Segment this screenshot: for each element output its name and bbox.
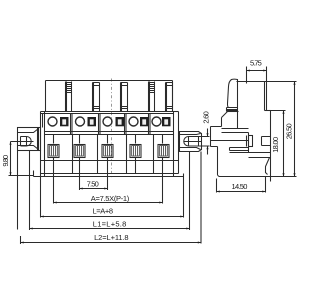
dim 2.60 extension lines bbox=[199, 137, 210, 147]
circle contact 2 bbox=[76, 117, 85, 126]
dim L=A+8 bbox=[41, 174, 184, 218]
wire slot 5 bbox=[158, 145, 169, 158]
cell separator 1 bbox=[71, 114, 73, 135]
pin P3 bbox=[121, 83, 128, 112]
pin P2 bbox=[93, 83, 100, 112]
dim 5.75 bbox=[247, 67, 267, 84]
wire slot 3 bbox=[102, 145, 113, 158]
svg-text:L2=L+11.8: L2=L+11.8 bbox=[94, 233, 129, 242]
wire slot 4 bbox=[130, 145, 141, 158]
side view under-lever edge bbox=[237, 112, 239, 129]
slot centerline stubs below slots bbox=[54, 157, 163, 177]
side view lever bbox=[227, 79, 239, 111]
cell separator 2 bbox=[99, 114, 101, 135]
cell separator 4 bbox=[149, 114, 151, 135]
wire slot 2 bbox=[74, 145, 85, 158]
pin P5 bbox=[166, 83, 173, 112]
circle contact 5 bbox=[152, 117, 161, 126]
square contact 4 bbox=[140, 117, 149, 126]
circle contact 4 bbox=[129, 117, 138, 126]
front view top band outline bbox=[46, 81, 173, 112]
circle contact 1 bbox=[48, 117, 57, 126]
dim 26.50 bbox=[267, 82, 297, 177]
lower band dividers bbox=[73, 135, 154, 174]
left flange edge extension bbox=[17, 151, 19, 230]
cell separator 3 bbox=[125, 114, 127, 135]
body bottom line bbox=[45, 160, 174, 162]
side view right edge bbox=[270, 111, 272, 182]
svg-text:14.50: 14.50 bbox=[232, 182, 248, 191]
side view step bbox=[265, 110, 271, 112]
side view top line bbox=[237, 81, 267, 83]
left flange ear outline bbox=[18, 128, 41, 151]
dim 2.60 arrows bbox=[206, 129, 208, 155]
dim 9.80 bbox=[9, 142, 34, 176]
dim A=7.5X(P-1) bbox=[54, 177, 163, 204]
side view right upper double edge bbox=[265, 82, 267, 111]
dimension texts bbox=[1, 59, 294, 242]
pin P4 hatched lever bbox=[149, 82, 155, 112]
svg-text:L=A+8: L=A+8 bbox=[93, 207, 114, 216]
circle contact 3 bbox=[103, 117, 112, 126]
side view left lower step bbox=[211, 112, 228, 147]
side view cavity band bbox=[211, 129, 271, 158]
square contact 5 bbox=[162, 117, 171, 126]
dim L1=L+5.8 bbox=[30, 151, 190, 230]
bottom plate bbox=[34, 171, 184, 177]
square contact 1 bbox=[60, 117, 69, 126]
svg-text:26.50: 26.50 bbox=[284, 123, 293, 139]
body top double line with left ledge bbox=[41, 112, 174, 114]
svg-text:5.75: 5.75 bbox=[250, 59, 262, 68]
side view bottom bbox=[217, 147, 270, 177]
svg-text:9.80: 9.80 bbox=[1, 155, 10, 167]
skirt bbox=[41, 161, 179, 174]
side view foot notch bbox=[266, 158, 270, 175]
right side step line bbox=[178, 112, 180, 174]
vertical dash-dot centerline bbox=[111, 79, 113, 178]
dim 7.50 bbox=[80, 177, 108, 191]
right flange ear outline bbox=[179, 132, 202, 152]
dim 14.50 bbox=[217, 177, 266, 193]
svg-text:7.50: 7.50 bbox=[87, 180, 99, 189]
svg-text:2.60: 2.60 bbox=[202, 111, 211, 123]
right flange slot bbox=[184, 137, 202, 147]
square contact 3 bbox=[116, 117, 125, 126]
svg-text:L1=L+5.8: L1=L+5.8 bbox=[93, 219, 127, 228]
mid double line bbox=[45, 132, 174, 135]
right ledge line bbox=[174, 111, 179, 113]
svg-text:A=7.5X(P-1): A=7.5X(P-1) bbox=[91, 194, 130, 203]
dim L2=L+11.8 bbox=[21, 236, 202, 244]
slot centerline stubs above slots bbox=[54, 135, 163, 144]
square contact 2 bbox=[88, 117, 97, 126]
dim 18.00 bbox=[267, 111, 297, 177]
left side step lines bbox=[41, 112, 43, 174]
body side edges bbox=[45, 112, 174, 177]
right flange extension to L2 bbox=[200, 152, 202, 244]
svg-text:18.00: 18.00 bbox=[271, 137, 280, 153]
wire slot 1 bbox=[48, 145, 59, 158]
left flange slot bbox=[11, 137, 34, 147]
pin P1 hatched lever bbox=[66, 82, 72, 112]
